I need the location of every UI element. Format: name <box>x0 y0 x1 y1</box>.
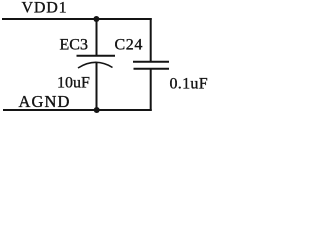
svg-text:10uF: 10uF <box>57 75 90 92</box>
capacitor EC3 curved negative plate <box>78 62 113 68</box>
svg-text:AGND: AGND <box>19 92 71 111</box>
svg-text:EC3: EC3 <box>60 37 88 54</box>
wire AGND bottom rail <box>3 109 152 111</box>
wire VDD1 top rail <box>2 18 152 20</box>
wire C24 top lead with corner from VDD1 rail <box>150 18 152 62</box>
node junction dot top (EC3 tap on VDD1) <box>93 16 99 22</box>
capacitor C24 top plate <box>133 61 169 63</box>
node junction dot bottom (EC3 to AGND) <box>94 107 100 113</box>
capacitor C24 bottom plate <box>134 68 170 70</box>
svg-text:C24: C24 <box>115 37 143 54</box>
wire EC3 bottom lead <box>96 63 98 111</box>
wire C24 bottom lead with corner to AGND rail <box>150 69 152 111</box>
wire EC3 top lead <box>96 19 98 56</box>
svg-text:VDD1: VDD1 <box>22 0 68 17</box>
capacitor EC3 positive plate <box>77 55 116 57</box>
svg-text:0.1uF: 0.1uF <box>170 76 208 93</box>
